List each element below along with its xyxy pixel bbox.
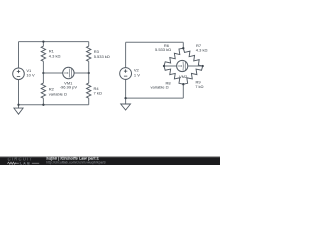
node: bottom-left junction: [17, 104, 19, 106]
svg-text:7 kΩ: 7 kΩ: [195, 84, 203, 89]
ground (right circuit): [121, 98, 131, 110]
wire: V2 top lead up to top rail: [125, 42, 127, 67]
node: bridge right vertex: [202, 65, 204, 67]
node: right branch / bridge wire junction: [88, 72, 90, 74]
wire: VM2 right lead: [188, 65, 203, 67]
resistor R8 variable (bridge bottom-left arm): [151, 66, 184, 90]
node: top rail / middle branch junction: [42, 40, 44, 42]
wire: right circuit top rail: [126, 41, 184, 43]
wire: left circuit top rail: [19, 41, 89, 43]
resistor R2 variable: [41, 83, 67, 98]
svg-text:variable Ω: variable Ω: [151, 85, 169, 90]
footer bar background: [0, 156, 220, 165]
node: bridge top vertex: [182, 47, 184, 49]
svg-text:5.533 kΩ: 5.533 kΩ: [94, 54, 110, 59]
wire: left rail upper segment (V1 top lead): [18, 42, 20, 69]
wire: right branch top lead: [88, 42, 90, 47]
ground (left circuit): [14, 105, 23, 114]
svg-text:4.3 kΩ: 4.3 kΩ: [49, 53, 61, 58]
node: bottom rail / middle branch junction: [42, 104, 44, 106]
wire: left rail lower segment (V1 bottom lead): [18, 80, 20, 105]
wire: VM1 left lead: [43, 72, 62, 74]
voltage source V2 1 V: [120, 68, 141, 80]
wire: middle branch top lead: [42, 42, 44, 47]
svg-text:4.3 kΩ: 4.3 kΩ: [196, 47, 208, 52]
svg-text:5.533 kΩ: 5.533 kΩ: [155, 47, 171, 52]
resistor R3 5.533 k&#937;: [87, 46, 110, 61]
node: middle branch / bridge wire junction: [42, 72, 44, 74]
wire: right circuit bottom rail: [126, 97, 184, 99]
resistor R4 7 k&#937;: [87, 83, 102, 98]
wire: middle branch bottom lead: [42, 98, 44, 105]
wire: middle branch mid lead: [42, 61, 44, 83]
node: bridge left vertex: [163, 65, 165, 67]
svg-text:-96.99 pV: -96.99 pV: [60, 85, 78, 90]
node: V2 bottom / ground junction: [124, 97, 126, 99]
node: bridge bottom vertex: [182, 83, 184, 85]
resistor R9 7 k&#937; (bridge bottom-right arm): [183, 66, 203, 89]
svg-text:1 V: 1 V: [134, 72, 140, 77]
wire: right branch bottom lead: [88, 98, 90, 105]
voltmeter VM1 -96.99 pV: [60, 67, 78, 89]
svg-text:variable Ω: variable Ω: [49, 91, 67, 96]
resistor R6 5.533 k&#937; (bridge top-left arm): [155, 43, 183, 66]
svg-text:10 V: 10 V: [26, 73, 35, 78]
wire: riser from bottom rail to bridge bottom vertex: [182, 84, 184, 98]
resistor R7 4.3 k&#937; (bridge top-right arm): [183, 43, 207, 66]
svg-text:http://circuitlab.com/c/cnmzwu: http://circuitlab.com/c/cnmzwuq/krkpar3: [46, 160, 105, 164]
svg-text:LAB: LAB: [20, 162, 31, 166]
wire: VM1 right lead: [74, 72, 89, 74]
resistor R1 4.3 k&#937;: [41, 46, 60, 61]
wire: drop from top rail to bridge top vertex: [182, 42, 184, 48]
wire: VM2 left lead: [164, 65, 177, 67]
svg-text:7 kΩ: 7 kΩ: [94, 91, 102, 96]
wire: V2 bottom lead down to bottom rail: [125, 80, 127, 99]
wire: left circuit bottom rail: [19, 104, 89, 106]
CircuitLab logo: [7, 157, 39, 166]
voltmeter VM2: [177, 60, 188, 79]
svg-text:VM2: VM2: [179, 74, 188, 79]
voltage source V1 10 V: [13, 68, 35, 80]
wire: right branch mid lead: [88, 61, 90, 83]
